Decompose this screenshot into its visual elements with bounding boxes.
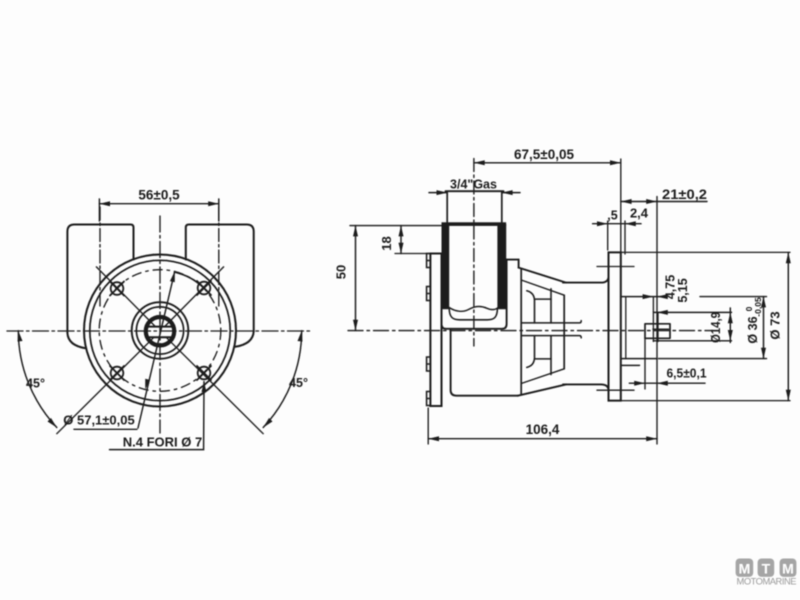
svg-text:Ø14,9: Ø14,9 [709,312,723,343]
svg-text:6,5±0,1: 6,5±0,1 [667,366,707,381]
left view: left port centerline [99,207,101,306]
svg-text:18: 18 [379,236,394,250]
right view: rear flange face extension line up [620,159,622,252]
dimension 106,4: extension + line + arrows [427,408,429,444]
right view: port right wall cross-section (solid black) [497,224,506,309]
right view: seal housing upper lobe top edge [535,298,552,300]
right view: impeller shroud lower left curve [527,336,535,368]
right view: drive pin left edge [652,297,654,342]
left view: right port centerline [218,207,220,306]
right view: shaft bottom line [521,336,581,338]
dimension 18: extension + line + arrows [350,225,442,227]
svg-text:T: T [762,561,771,577]
dimension ,5 and 2,4: extensions + line + arrows [607,221,609,250]
svg-text:M: M [739,561,751,577]
dimension Ø36: extensions + line + arrows [700,296,767,298]
dimension 5,15: arrow on bore top line [657,310,668,315]
left view: top-right port fillet to flange [235,332,254,347]
svg-text:,5: ,5 [607,209,617,223]
dimension 56±0,5: left extension line [98,199,100,221]
svg-text:106,4: 106,4 [526,422,560,437]
left view texts [26,188,308,450]
left view: vertical centerline [159,216,161,433]
dimension 21±0,2: line + arrows [621,201,707,203]
left view: bolt hole bottom-left [110,366,124,380]
right view: cone top slant [519,268,566,283]
right view: rear flange hole centerline lower [597,389,634,391]
svg-text:-0,05: -0,05 [753,297,763,317]
dimension 45° left: arc with arrows [18,331,57,428]
left view: diagonal centerline to bottom-left hole (extended to 45deg arc) [57,337,154,434]
right view: cone bottom slant [518,384,566,395]
dimension 6,5±0,1: extension + line + arrows [644,338,646,389]
right view: seal housing lower lobe bottom edge [535,358,552,360]
right view: rear boss top edge (also 4,75 dim line) [621,296,664,298]
svg-text:Ø 36: Ø 36 [746,316,760,343]
left view: top-left port fillet to flange [67,333,85,348]
svg-text:56±0,5: 56±0,5 [138,188,180,203]
right view: end face extension line (21 / 106,4 / 6,5) [656,197,658,445]
right view: body top edge [507,259,519,261]
dimension 45° right: arc with arrows [263,331,302,428]
right view: flange tab 3 [427,357,431,371]
left view: hub outer circle [132,302,189,359]
svg-text:M: M [782,561,794,577]
right view: rear flange plate [609,252,621,400]
right view: flange tab 2 [427,287,431,301]
right view: shaft top line [521,321,581,323]
left view: flange inner rim circle [90,260,230,400]
svg-text:Ø 57,1±0,05: Ø 57,1±0,05 [63,413,134,428]
dimension 56±0,5: right extension line [218,199,220,221]
right view: impeller shroud upper left curve [527,291,535,323]
right view: port left wall cross-section (solid black) [442,224,450,309]
left view: shaft bore (thick ring) [146,317,174,345]
right view: seal housing upper lobe right edge (stem to cone) [550,289,552,323]
dimension 4,75: arrows on boss top line [643,294,654,299]
left view: hub inner circle [136,307,183,354]
svg-text:21±0,2: 21±0,2 [662,187,707,202]
right view: flange tab 1 [427,254,431,268]
svg-text:2,4: 2,4 [630,206,649,221]
svg-text:5,15: 5,15 [676,278,690,302]
right view: shaft bore top line (also 5,15 dim / Ø14,9 extension) [653,311,731,313]
right view: drive pin right edge [657,312,659,341]
right view: cone top inner line [521,280,564,295]
right view: inlet port thread section [447,192,502,222]
right view: port wall cross-section top band (solid) [442,222,507,226]
svg-text:MOTOMARINE: MOTOMARINE [737,576,797,587]
svg-text:50: 50 [334,265,349,279]
svg-text:N.4 FORI Ø 7: N.4 FORI Ø 7 [123,435,202,450]
left view: bolt hole top-left [110,282,124,296]
right view: rear boss bottom edge [621,358,657,360]
left view: diagonal centerline to top-right hole [165,267,224,327]
right view: rear boss groove line [625,297,627,359]
right view: port axis centerline [473,159,475,347]
dimension 56±0,5: right arrowhead [208,201,219,206]
dimension Ø73: extensions + line + arrows [621,251,790,253]
logo MTM Motomarine [736,559,797,587]
right view: cone bottom inner line [521,369,564,384]
leader for N.4 FORI Ø 7 [110,382,205,450]
svg-text:3/4"Gas: 3/4"Gas [450,177,497,191]
right view: bearing block left face [563,295,565,369]
dimension Ø14,9: line + arrows [729,308,731,343]
left view: bore upper flat chord [147,326,174,328]
dimension 56±0,5: left arrowhead [99,201,110,206]
left view: bolt hole bottom-right [197,366,211,380]
leader underline for Ø 57,1±0,05 [74,428,137,430]
dimension 67,5±0,05: line and arrows [474,162,621,164]
svg-text:67,5±0,05: 67,5±0,05 [514,147,574,162]
right view: body top step [518,260,520,268]
right view texts [334,147,783,437]
left view: diagonal centerline to top-left hole [96,267,155,327]
right view: cup interior bottom [449,308,497,320]
left view: flange outer circle [84,255,236,407]
svg-text:Ø 73: Ø 73 [768,311,783,339]
right view: inlet cup outline [442,260,507,329]
right view: body bottom step [451,329,518,396]
right view: bearing block bottom edge with fillet to rear flange [563,384,609,390]
left view: top-right inlet port outline [186,225,254,332]
right view: flange tab 4 [427,392,431,406]
dimension 56±0,5: dimension line [99,203,218,205]
right view: water level break line in cup [449,306,497,311]
right view: impeller housing front wall [520,268,522,394]
left view: horizontal centerline [7,330,312,332]
left view: top-left inlet port outline [67,225,133,334]
svg-text:45°: 45° [26,377,45,391]
right view: seal housing lower lobe right edge (stem to cone) [550,336,552,375]
left view: bolt hole top-right [197,281,211,295]
leader (bolt-circle diameter line) for Ø 57,1±0,05 [138,272,175,429]
right view: front mounting flange plate [430,254,441,407]
text Ø36 with tolerance (rotated) [744,297,763,344]
right view: bearing block top edge with fillet to rear flange [563,277,609,283]
right view: rear flange hole centerline upper [597,266,634,268]
left view: bore lower flat chord [148,336,174,338]
right view: inlet port top edge / thread underline [446,190,504,192]
left view: diagonal centerline to bottom-right hole (extended to 45deg arc) [166,337,263,434]
dimension 50: line + arrows [355,226,357,331]
dimension 3/4 Gas: arrows outside [429,192,520,194]
right view: small ledge line under boss [621,364,640,366]
svg-text:45°: 45° [289,376,308,390]
right view: shaft stub mid line [653,328,669,330]
right view: shaft bore bottom line (Ø14,9 extension) [653,340,731,342]
right view: axis centerline [348,330,713,332]
left view: bolt circle solid arc to top-right hole [175,272,204,288]
right view: shaft stub end [645,324,670,339]
left view: bolt circle (dash-dot) [99,270,221,392]
